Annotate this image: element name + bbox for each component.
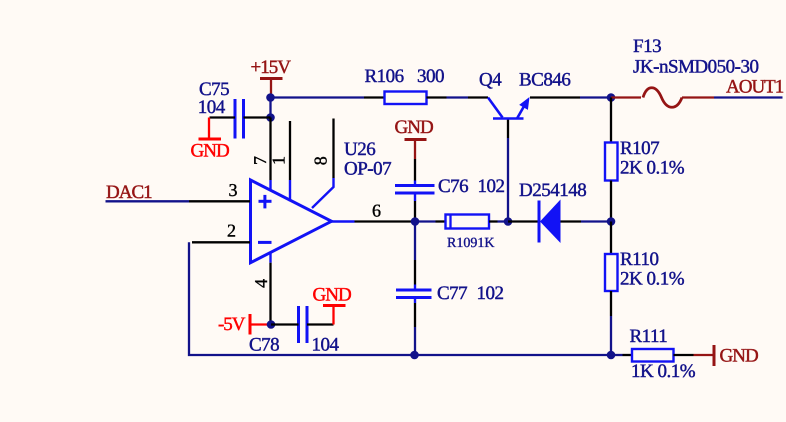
transistor Q4 [479,70,570,119]
capacitor C77 [396,283,504,304]
svg-text:DAC1: DAC1 [106,182,152,203]
wire C78 left pin [271,323,299,325]
svg-text:Q4: Q4 [479,70,502,91]
svg-text:U26: U26 [344,139,375,160]
svg-text:F13: F13 [633,36,661,57]
svg-text:6: 6 [372,201,381,221]
resistor R110 [605,249,685,291]
wire R107 bottom pin [610,181,612,222]
svg-text:R106: R106 [365,66,404,87]
capacitor C78 [249,306,340,356]
node pin6 junction [411,217,420,226]
svg-text:C78: C78 [249,335,279,356]
wire R111 right [674,354,694,356]
wire pin 7 [269,118,271,181]
wire R109 left [415,220,446,222]
svg-text:R107: R107 [620,138,659,159]
wire R109 right [489,220,508,222]
svg-text:JK-nSMD050-30: JK-nSMD050-30 [633,57,758,78]
svg-text:C77: C77 [437,283,467,304]
resistor R106 [365,66,445,104]
svg-text:AOUT1: AOUT1 [726,77,784,98]
svg-text:+15V: +15V [251,57,292,78]
svg-text:R1091K: R1091K [447,236,494,251]
svg-text:R111: R111 [630,326,668,347]
wire R111 left [611,354,632,356]
wire R110 bottom pin [610,291,612,355]
svg-text:GND: GND [313,285,351,306]
ground GND red (C78) [313,285,351,325]
svg-text:2: 2 [227,221,236,241]
power -5V [218,314,271,335]
wire R106 right pin [427,96,447,98]
svg-text:GND: GND [191,141,229,162]
svg-text:GND: GND [395,117,433,138]
wire DAC1 [106,200,190,202]
svg-text:4: 4 [251,279,271,288]
wire pin 6 output [332,220,416,222]
resistor R109 [446,215,495,252]
svg-text:D254148: D254148 [519,180,586,201]
svg-text:-5V: -5V [218,314,246,335]
node +15V junction [266,93,275,102]
wire C75 left pin [210,116,236,118]
wire pin 2 [192,241,250,243]
wire diode anode [561,220,612,222]
svg-text:102: 102 [477,283,504,304]
svg-text:OP-07: OP-07 [344,159,391,180]
wire between junctions [269,98,271,118]
svg-text:GND: GND [720,346,758,367]
svg-text:7: 7 [250,156,270,165]
node pin4 junction [267,320,276,329]
wire diode cathode [508,220,539,222]
node diode right junction [607,217,616,226]
wire to Q4 collector [447,96,469,98]
wire C76 bottom pin [414,193,416,222]
wire AOUT1 [714,96,783,98]
wire Q4 emitter to node [530,96,611,98]
wire pin 8 [312,119,334,209]
svg-text:3: 3 [229,180,238,200]
node AOUT junction [607,93,616,102]
diode D25 [519,180,586,243]
svg-text:300: 300 [417,66,444,87]
wire pin 1 [289,121,291,201]
svg-text:1K 0.1%: 1K 0.1% [631,361,696,382]
op-amp U26 [251,139,392,263]
wire pin 4 [269,252,271,263]
wire R107 top pin [610,98,612,143]
svg-text:2K 0.1%: 2K 0.1% [620,158,685,179]
wire bottom rail right [415,354,612,356]
wire C78 right pin [307,323,334,325]
wire R106 left pin [364,96,385,98]
svg-text:104: 104 [312,335,340,356]
resistor R111 [630,326,696,382]
svg-text:8: 8 [311,156,331,165]
wire top rail left [271,96,364,98]
node bottom left junction [410,351,419,360]
node C75 junction [266,113,275,122]
ground GND maroon (C76) [395,117,433,159]
svg-text:BC846: BC846 [519,70,570,91]
svg-text:R110: R110 [620,249,658,270]
capacitor C75 [198,79,244,139]
svg-text:2K 0.1%: 2K 0.1% [620,269,685,290]
wire Q4 base [507,119,509,222]
svg-text:104: 104 [198,97,226,118]
power GND maroon (right) [694,345,758,367]
wire pin6 junction down [414,222,416,291]
wire C75 right pin [244,116,271,118]
svg-text:102: 102 [478,176,505,197]
resistor R107 [605,138,685,181]
svg-text:C76: C76 [438,176,468,197]
wire feedback loop [189,242,415,355]
wire pin 3 [189,200,250,202]
svg-text:1: 1 [268,156,288,165]
node bottom right junction [607,351,616,360]
fuse F13 [611,36,758,107]
node Q4 base junction [504,217,513,226]
wire GND to C76 [414,159,416,181]
wire R110 top pin [610,222,612,255]
power +15V [251,57,292,97]
ground GND red (C75) [191,118,229,162]
wire C77 bottom pin [414,298,416,356]
capacitor C76 [395,176,505,197]
